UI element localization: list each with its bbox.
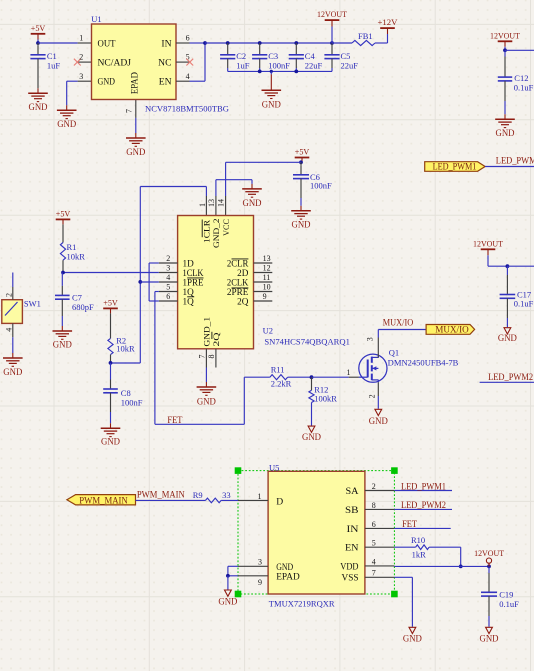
svg-text:9: 9: [258, 578, 262, 587]
svg-text:12: 12: [263, 263, 271, 272]
svg-text:GND: GND: [262, 101, 281, 111]
svg-text:C19: C19: [499, 589, 513, 599]
svg-text:GND: GND: [496, 129, 515, 139]
svg-text:GND: GND: [498, 334, 517, 344]
svg-text:FB1: FB1: [358, 31, 373, 41]
svg-text:EN: EN: [159, 77, 172, 88]
svg-text:11: 11: [263, 273, 271, 282]
svg-text:NC/ADJ: NC/ADJ: [98, 58, 132, 69]
svg-text:100nF: 100nF: [268, 60, 290, 70]
svg-text:GND_2: GND_2: [211, 219, 221, 249]
svg-text:NCV8718BMT500TBG: NCV8718BMT500TBG: [145, 104, 229, 114]
svg-text:3: 3: [79, 72, 83, 81]
svg-text:3: 3: [365, 337, 374, 341]
svg-text:2Q: 2Q: [237, 296, 249, 306]
svg-text:12VOUT: 12VOUT: [474, 548, 505, 558]
svg-text:7: 7: [125, 109, 134, 113]
svg-text:FET: FET: [402, 519, 417, 529]
svg-text:GND: GND: [480, 634, 499, 644]
svg-text:LED_PWM1: LED_PWM1: [433, 162, 477, 172]
svg-text:Q1: Q1: [389, 348, 399, 358]
svg-text:10: 10: [263, 282, 271, 291]
svg-text:GND: GND: [101, 437, 120, 447]
svg-text:8: 8: [372, 501, 376, 510]
svg-text:12VOUT: 12VOUT: [317, 9, 348, 19]
svg-text:GND: GND: [3, 368, 22, 378]
svg-text:+5V: +5V: [295, 147, 310, 157]
svg-text:TMUX7219RQXR: TMUX7219RQXR: [269, 599, 335, 609]
svg-text:IN: IN: [161, 39, 171, 50]
svg-text:6: 6: [166, 292, 170, 301]
svg-text:1Q: 1Q: [183, 287, 195, 297]
svg-text:GND: GND: [29, 103, 48, 113]
svg-text:VSS: VSS: [342, 573, 359, 584]
svg-text:2: 2: [166, 254, 170, 263]
svg-text:0.1uF: 0.1uF: [514, 299, 534, 309]
svg-text:+12V: +12V: [378, 17, 399, 27]
svg-text:MUX/IO: MUX/IO: [435, 324, 469, 334]
svg-text:1uF: 1uF: [236, 60, 250, 70]
svg-text:NC: NC: [158, 58, 171, 69]
svg-text:10kR: 10kR: [67, 252, 86, 262]
svg-text:D: D: [276, 496, 283, 507]
svg-text:100nF: 100nF: [310, 181, 332, 191]
svg-text:1PRE: 1PRE: [183, 277, 204, 287]
svg-text:U2: U2: [263, 326, 273, 336]
svg-text:GND: GND: [57, 120, 76, 130]
svg-text:12VOUT: 12VOUT: [473, 238, 504, 248]
svg-text:PWM_MAIN: PWM_MAIN: [79, 495, 128, 505]
svg-text:1uF: 1uF: [47, 60, 61, 70]
svg-text:GND: GND: [197, 398, 216, 408]
svg-text:GND: GND: [126, 148, 145, 158]
svg-text:GND: GND: [403, 634, 422, 644]
svg-text:3: 3: [166, 263, 170, 272]
svg-text:EPAD: EPAD: [276, 572, 300, 583]
svg-text:SW1: SW1: [24, 298, 41, 308]
svg-text:GND_1: GND_1: [202, 317, 212, 347]
svg-text:U5: U5: [269, 462, 279, 472]
svg-text:DMN2450UFB4-7B: DMN2450UFB4-7B: [388, 357, 459, 367]
svg-text:+5V: +5V: [56, 208, 71, 218]
svg-text:2.2kR: 2.2kR: [271, 379, 292, 389]
svg-text:GND: GND: [292, 221, 311, 231]
svg-text:22uF: 22uF: [305, 60, 323, 70]
svg-text:C12: C12: [514, 73, 528, 83]
svg-text:5: 5: [166, 282, 170, 291]
svg-text:1: 1: [79, 34, 83, 43]
svg-text:LED_PWM1: LED_PWM1: [401, 481, 446, 491]
svg-text:SA: SA: [346, 486, 359, 497]
svg-text:4: 4: [5, 328, 14, 332]
svg-text:9: 9: [263, 292, 267, 301]
svg-text:LED_PWM1: LED_PWM1: [496, 155, 534, 165]
svg-text:100kR: 100kR: [314, 393, 337, 403]
svg-text:10kR: 10kR: [116, 344, 135, 354]
svg-text:+5V: +5V: [103, 297, 118, 307]
svg-text:GND: GND: [369, 417, 388, 427]
svg-text:VCC: VCC: [221, 219, 231, 236]
svg-text:GND: GND: [98, 77, 116, 88]
svg-text:1: 1: [347, 368, 351, 377]
svg-text:2: 2: [4, 293, 13, 297]
svg-text:680pF: 680pF: [72, 302, 94, 312]
svg-text:7: 7: [372, 569, 376, 578]
svg-text:GND: GND: [53, 341, 72, 351]
svg-text:1CLK: 1CLK: [183, 268, 204, 278]
svg-text:5: 5: [372, 539, 376, 548]
svg-text:VDD: VDD: [340, 561, 358, 572]
svg-text:4: 4: [166, 273, 170, 282]
svg-text:2CLK: 2CLK: [227, 277, 249, 287]
svg-text:2: 2: [367, 394, 376, 398]
svg-text:7: 7: [198, 355, 207, 359]
svg-text:LED_PWM2: LED_PWM2: [488, 372, 533, 382]
svg-text:FET: FET: [167, 415, 182, 425]
svg-text:12VOUT: 12VOUT: [490, 30, 521, 40]
svg-text:GND: GND: [218, 597, 237, 607]
svg-text:0.1uF: 0.1uF: [514, 83, 534, 93]
svg-text:LED_PWM2: LED_PWM2: [401, 500, 446, 510]
svg-text:4: 4: [372, 557, 376, 566]
svg-text:1D: 1D: [183, 258, 195, 268]
svg-text:100nF: 100nF: [121, 398, 143, 408]
svg-text:PWM_MAIN: PWM_MAIN: [137, 489, 185, 499]
svg-text:13: 13: [207, 199, 216, 207]
svg-text:2D: 2D: [237, 268, 249, 278]
svg-text:1kR: 1kR: [412, 550, 427, 560]
svg-text:2: 2: [79, 53, 83, 62]
svg-text:14: 14: [216, 199, 225, 207]
svg-text:1: 1: [198, 203, 207, 207]
svg-text:R1: R1: [67, 242, 77, 252]
svg-text:GND: GND: [302, 433, 321, 443]
svg-text:U1: U1: [91, 14, 101, 24]
svg-text:GND: GND: [243, 199, 262, 209]
svg-text:R11: R11: [271, 364, 285, 374]
svg-text:R10: R10: [411, 535, 425, 545]
svg-text:EPAD: EPAD: [131, 72, 141, 94]
svg-text:SB: SB: [345, 505, 359, 516]
svg-text:4: 4: [186, 72, 190, 81]
svg-text:2CLR: 2CLR: [227, 258, 249, 268]
svg-text:2: 2: [372, 482, 376, 491]
svg-text:3: 3: [258, 558, 262, 567]
svg-text:13: 13: [263, 254, 271, 263]
svg-text:0.1uF: 0.1uF: [499, 599, 519, 609]
svg-text:6: 6: [372, 520, 376, 529]
svg-text:2Q: 2Q: [211, 332, 221, 347]
svg-text:1: 1: [258, 492, 262, 501]
svg-text:C8: C8: [121, 388, 131, 398]
svg-text:SN74HCS74QBQARQ1: SN74HCS74QBQARQ1: [264, 336, 350, 346]
svg-text:6: 6: [186, 34, 190, 43]
svg-text:1Q: 1Q: [183, 296, 195, 306]
svg-text:MUX/IO: MUX/IO: [383, 317, 414, 327]
svg-text:33: 33: [222, 490, 231, 500]
svg-text:IN: IN: [347, 524, 359, 535]
svg-text:R9: R9: [193, 490, 203, 500]
svg-text:1CLR: 1CLR: [202, 220, 212, 243]
svg-text:OUT: OUT: [98, 39, 116, 50]
svg-text:22uF: 22uF: [341, 60, 359, 70]
svg-text:8: 8: [207, 355, 216, 359]
svg-text:+5V: +5V: [31, 23, 46, 33]
svg-text:EN: EN: [345, 543, 359, 554]
